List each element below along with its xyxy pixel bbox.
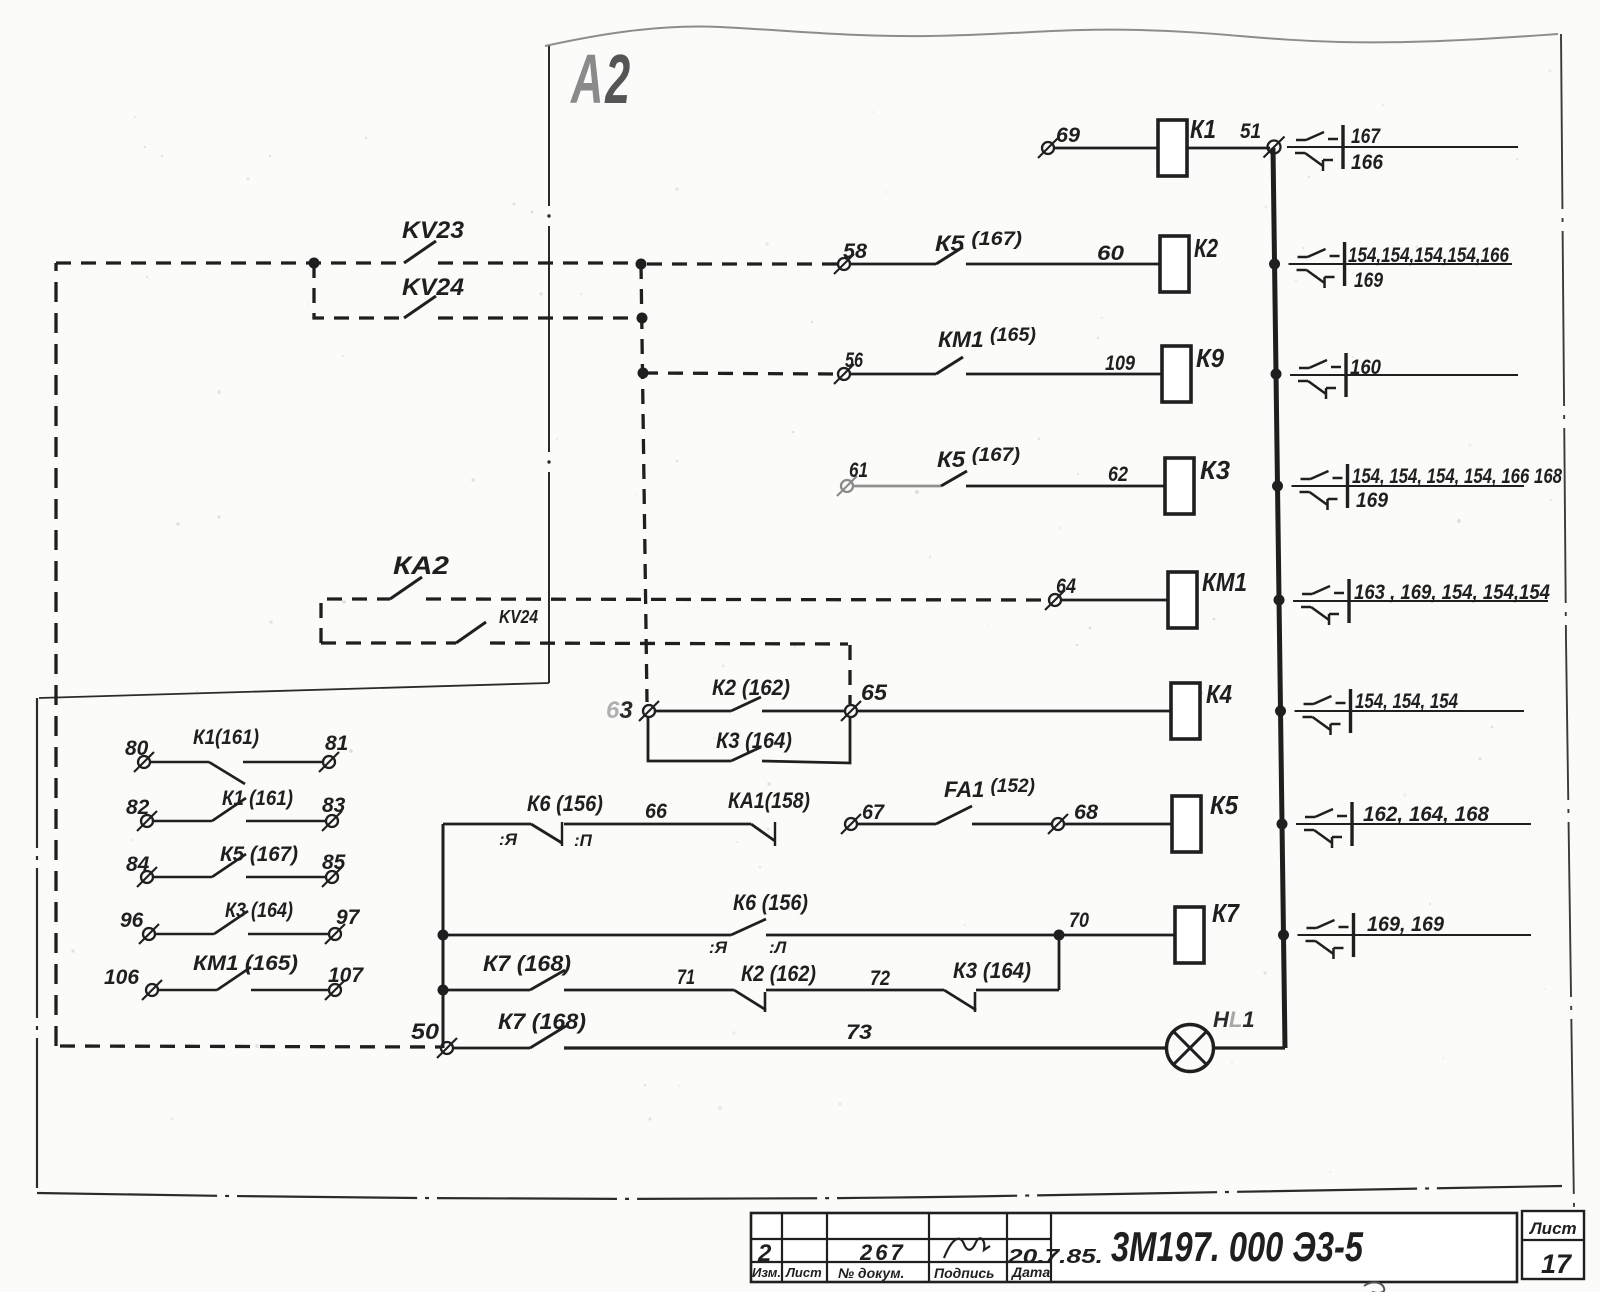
svg-text:62: 62 xyxy=(1108,463,1128,486)
svg-text:68: 68 xyxy=(1074,801,1098,824)
svg-text:65: 65 xyxy=(861,680,888,705)
svg-text::Я: :Я xyxy=(499,830,518,849)
svg-text:К7 (168): К7 (168) xyxy=(483,951,571,976)
svg-text::Я: :Я xyxy=(709,938,728,957)
svg-text:154, 154, 154: 154, 154, 154 xyxy=(1355,690,1458,713)
svg-text:К2 (162): К2 (162) xyxy=(712,675,790,700)
svg-text:56: 56 xyxy=(845,349,863,372)
svg-text:К2 (162): К2 (162) xyxy=(741,961,816,986)
svg-text:60: 60 xyxy=(1097,242,1124,265)
svg-text:81: 81 xyxy=(325,732,348,755)
svg-text:К3: К3 xyxy=(1200,455,1231,485)
svg-text:82: 82 xyxy=(126,796,150,819)
svg-text:169: 169 xyxy=(1356,489,1388,512)
svg-text:К1(161): К1(161) xyxy=(193,726,259,749)
svg-text:К6 (156): К6 (156) xyxy=(527,791,603,816)
svg-text:169, 169: 169, 169 xyxy=(1367,913,1444,936)
svg-text:К1 (161): К1 (161) xyxy=(222,787,293,810)
svg-text:Лист: Лист xyxy=(785,1265,822,1280)
svg-text:К6 (156): К6 (156) xyxy=(733,890,808,915)
svg-text:К7: К7 xyxy=(1212,898,1240,928)
svg-text::Л: :Л xyxy=(769,938,787,957)
svg-text:3М197. 000 Э3-5: 3М197. 000 Э3-5 xyxy=(1111,1223,1363,1270)
svg-text:KV23: KV23 xyxy=(402,217,465,244)
svg-text:К9: К9 xyxy=(1196,343,1224,373)
svg-text:КМ1 (165): КМ1 (165) xyxy=(193,952,298,975)
svg-text:К2: К2 xyxy=(1194,233,1218,263)
svg-text:72: 72 xyxy=(870,967,890,990)
svg-text:№ докум.: № докум. xyxy=(838,1265,904,1281)
svg-text:107: 107 xyxy=(328,964,364,987)
svg-text:84: 84 xyxy=(126,853,150,876)
svg-text:КА2: КА2 xyxy=(393,552,449,580)
svg-text:К5: К5 xyxy=(1210,790,1238,820)
svg-text:Дата: Дата xyxy=(1011,1264,1050,1280)
svg-text:96: 96 xyxy=(120,909,144,932)
svg-text:НL1: НL1 xyxy=(1213,1007,1255,1032)
svg-text:267: 267 xyxy=(859,1240,906,1265)
svg-text:Подпись: Подпись xyxy=(934,1265,994,1281)
svg-text:17: 17 xyxy=(1541,1249,1573,1279)
svg-text:К5 (167): К5 (167) xyxy=(220,843,298,866)
svg-text:80: 80 xyxy=(125,737,149,760)
svg-text:KV24: KV24 xyxy=(499,607,538,627)
svg-text::П: :П xyxy=(574,831,593,850)
svg-text:69: 69 xyxy=(1056,124,1080,147)
svg-text:КМ1: КМ1 xyxy=(1202,567,1247,597)
svg-text:71: 71 xyxy=(677,966,695,989)
svg-text:67: 67 xyxy=(862,801,885,824)
svg-text:Изм.: Изм. xyxy=(752,1265,781,1280)
svg-text:169: 169 xyxy=(1354,269,1383,292)
svg-text:154,154,154,154,166: 154,154,154,154,166 xyxy=(1348,244,1509,267)
svg-text:А2: А2 xyxy=(569,41,630,118)
svg-text:162, 164, 168: 162, 164, 168 xyxy=(1363,803,1489,826)
svg-text:58: 58 xyxy=(843,240,867,263)
svg-text:73: 73 xyxy=(846,1021,872,1044)
svg-text:83: 83 xyxy=(322,794,346,817)
svg-text:К3 (164): К3 (164) xyxy=(225,899,293,922)
svg-text:167: 167 xyxy=(1351,125,1381,148)
svg-text:63: 63 xyxy=(606,697,633,724)
svg-text:К1: К1 xyxy=(1190,114,1216,144)
svg-text:64: 64 xyxy=(1056,575,1076,598)
svg-text:163 , 169, 154, 154,154: 163 , 169, 154, 154,154 xyxy=(1354,581,1550,604)
svg-text:К3 (164): К3 (164) xyxy=(716,728,792,753)
svg-text:154, 154, 154, 154, 166 168: 154, 154, 154, 154, 166 168 xyxy=(1352,465,1562,488)
svg-text:97: 97 xyxy=(336,906,361,929)
svg-text:К3 (164): К3 (164) xyxy=(953,958,1031,983)
svg-text:160: 160 xyxy=(1350,356,1381,379)
svg-text:61: 61 xyxy=(849,459,868,482)
svg-text:66: 66 xyxy=(645,800,667,823)
svg-text:85: 85 xyxy=(322,851,346,874)
svg-text:109: 109 xyxy=(1105,352,1135,375)
svg-text:106: 106 xyxy=(104,966,139,989)
svg-text:KV24: KV24 xyxy=(402,274,464,301)
svg-text:50: 50 xyxy=(411,1019,440,1044)
svg-text:К4: К4 xyxy=(1206,679,1232,709)
svg-text:166: 166 xyxy=(1351,151,1383,174)
svg-text:2: 2 xyxy=(757,1240,772,1267)
svg-text:К7 (168): К7 (168) xyxy=(498,1009,586,1034)
svg-text:70: 70 xyxy=(1069,909,1089,932)
svg-text:Лист: Лист xyxy=(1528,1219,1577,1238)
svg-text:КА1(158): КА1(158) xyxy=(728,788,810,813)
svg-text:51: 51 xyxy=(1240,120,1261,143)
